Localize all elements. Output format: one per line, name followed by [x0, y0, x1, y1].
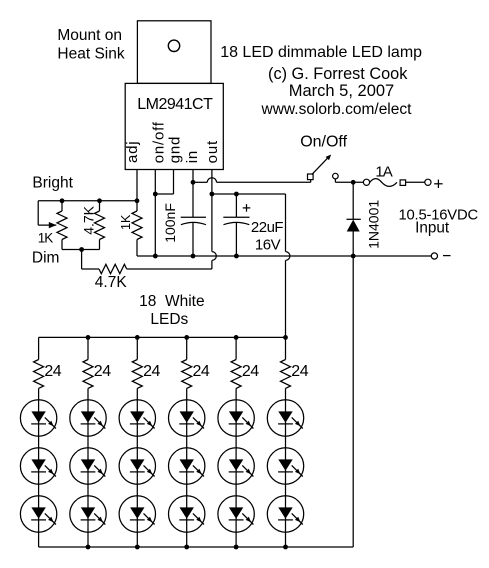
svg-text:Input: Input: [415, 220, 450, 237]
svg-text:in: in: [184, 150, 201, 163]
svg-text:24: 24: [193, 363, 210, 380]
svg-text:4.7K: 4.7K: [95, 274, 128, 291]
svg-text:www.solorb.com/elect: www.solorb.com/elect: [261, 101, 413, 118]
svg-text:24: 24: [143, 363, 160, 380]
svg-text:on/off: on/off: [150, 121, 167, 163]
svg-text:LM2941CT: LM2941CT: [137, 96, 213, 113]
svg-text:24: 24: [291, 363, 308, 380]
svg-text:100nF: 100nF: [162, 203, 178, 243]
svg-text:out: out: [204, 140, 221, 163]
svg-text:adj: adj: [124, 141, 141, 163]
svg-text:1N4001: 1N4001: [366, 200, 382, 249]
svg-text:Mount on: Mount on: [57, 27, 122, 44]
svg-text:1K: 1K: [38, 231, 54, 246]
svg-text:LEDs: LEDs: [150, 311, 188, 328]
svg-text:gnd: gnd: [166, 136, 183, 163]
svg-text:Bright: Bright: [32, 175, 73, 192]
svg-text:4.7K: 4.7K: [81, 205, 97, 234]
svg-text:(c) G. Forrest Cook: (c) G. Forrest Cook: [268, 65, 408, 83]
svg-text:March 5, 2007: March 5, 2007: [289, 82, 394, 100]
svg-text:18 LED dimmable LED lamp: 18 LED dimmable LED lamp: [220, 44, 422, 61]
svg-text:16V: 16V: [255, 237, 281, 254]
svg-text:Heat Sink: Heat Sink: [57, 45, 124, 62]
svg-text:18 White: 18 White: [139, 293, 204, 310]
svg-text:24: 24: [44, 363, 61, 380]
svg-text:24: 24: [94, 363, 111, 380]
svg-text:Dim: Dim: [32, 250, 60, 267]
svg-text:1A: 1A: [375, 163, 392, 180]
svg-text:1K: 1K: [119, 214, 133, 230]
svg-text:On/Off: On/Off: [300, 134, 347, 151]
svg-text:22uF: 22uF: [251, 219, 284, 236]
svg-text:24: 24: [242, 363, 259, 380]
